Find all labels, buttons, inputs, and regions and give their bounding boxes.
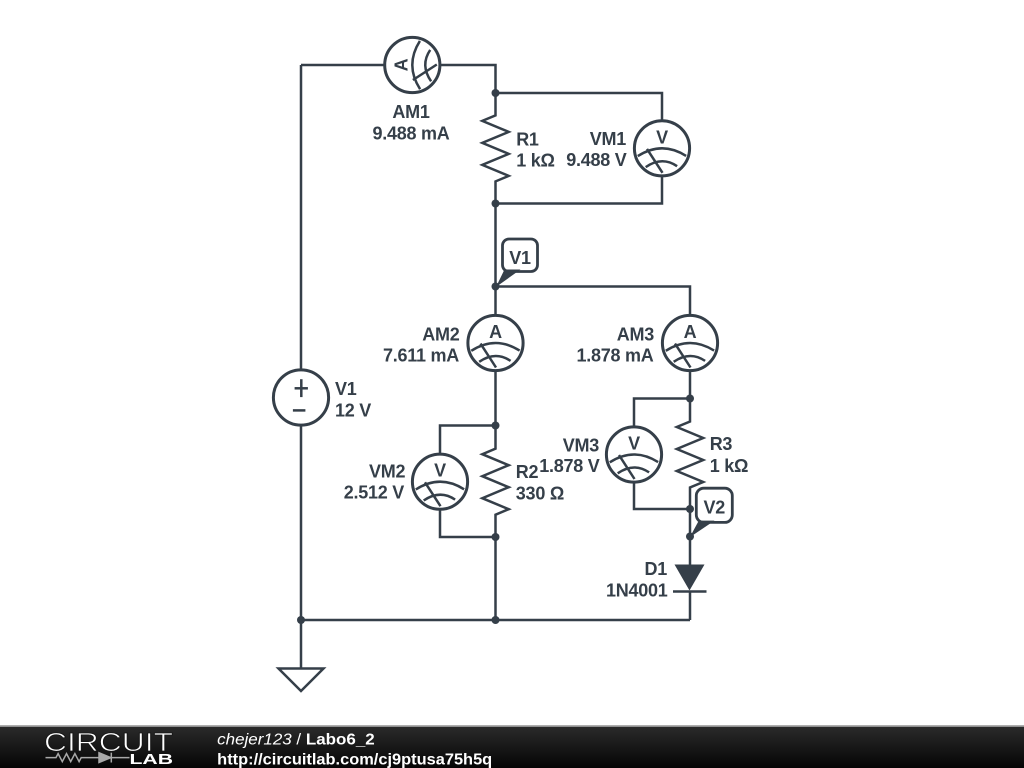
node V1 flag (496, 239, 538, 287)
svg-text:A: A (489, 322, 502, 342)
svg-text:VM1: VM1 (590, 129, 627, 149)
wire junction to VM3 top (634, 399, 690, 428)
svg-text:AM2: AM2 (422, 325, 459, 345)
wire VM1 bottom to junction (496, 176, 663, 204)
resistor R3 (677, 399, 703, 510)
label R3 value (710, 434, 748, 476)
junction node at R2 top (492, 422, 500, 430)
wire junction to VM1 top (496, 93, 663, 121)
voltage source V1 (273, 370, 328, 425)
svg-text:V: V (628, 434, 640, 454)
label VM3 value (539, 435, 600, 476)
svg-text:R3: R3 (710, 434, 733, 454)
svg-text:V2: V2 (704, 497, 726, 517)
wire source bottom to rail (300, 425, 303, 620)
svg-text:VM2: VM2 (369, 462, 406, 482)
junction node at R2 bottom (492, 533, 500, 541)
svg-text:330 Ω: 330 Ω (516, 483, 564, 503)
footer bar (0, 727, 1024, 768)
svg-text:VM3: VM3 (563, 435, 600, 455)
resistor R1 (482, 93, 508, 204)
junction node at R3 top (686, 395, 694, 403)
label R2 value (516, 462, 564, 503)
svg-text:2.512 V: 2.512 V (344, 482, 405, 502)
voltmeter VM2 (412, 454, 467, 509)
junction node rail mid (492, 616, 500, 624)
ground (279, 669, 324, 692)
node V2 flag (690, 488, 733, 537)
svg-text:AM3: AM3 (617, 325, 654, 345)
label VM2 value (344, 462, 406, 503)
ammeter AM3 (662, 315, 717, 370)
wire top from left corner to AM1 (301, 64, 385, 67)
resistor R2 (482, 426, 508, 538)
wire junction to VM2 top (440, 426, 496, 455)
junction node rail left (297, 616, 305, 624)
svg-text:1N4001: 1N4001 (606, 580, 668, 600)
wire AM1 to top-right corner down to junction (440, 65, 496, 93)
wire VM3 bottom to junction (634, 482, 690, 509)
svg-text:1.878 mA: 1.878 mA (576, 346, 653, 366)
wire ground rail (301, 619, 690, 622)
logo wire with resistor and diode (46, 753, 130, 763)
wire R2 bottom to ground rail (494, 537, 497, 620)
label R1 value (516, 130, 554, 171)
wire node V1 to AM3 top (496, 287, 691, 316)
junction node at R3 bottom (686, 505, 694, 513)
node dot V2 (686, 533, 694, 541)
logo CIRCUIT text (44, 727, 173, 757)
node dot V1 (492, 283, 500, 291)
wire R1 bottom to node V1 (494, 204, 497, 287)
svg-text:9.488 mA: 9.488 mA (372, 124, 449, 144)
wire AM2 bottom to junction (494, 371, 497, 426)
svg-text:R2: R2 (516, 462, 539, 482)
label D1 value (606, 559, 668, 600)
wire VM2 bottom to junction (440, 509, 496, 537)
label V1 source value (335, 379, 371, 420)
svg-text:V1: V1 (335, 379, 357, 399)
wire node V2 to diode (689, 537, 692, 566)
svg-text:AM1: AM1 (392, 102, 429, 122)
junction node at R1 top (492, 89, 500, 97)
label AM1 value (372, 102, 449, 144)
wire AM3 bottom to junction (689, 371, 692, 399)
svg-text:http://circuitlab.com/cj9ptusa: http://circuitlab.com/cj9ptusa75h5q (217, 751, 492, 768)
wire node V1 to AM2 top (494, 287, 497, 316)
svg-text:12 V: 12 V (335, 400, 371, 420)
wire diode to ground rail (689, 592, 692, 621)
ammeter AM1 (385, 37, 440, 92)
svg-text:LAB: LAB (130, 751, 174, 768)
svg-text:A: A (391, 58, 411, 71)
ammeter AM2 (468, 315, 523, 370)
logo LAB text (130, 751, 174, 768)
svg-text:V: V (656, 127, 668, 147)
svg-text:D1: D1 (644, 559, 667, 579)
diode D1 (673, 565, 707, 592)
svg-text:V: V (434, 461, 446, 481)
svg-text:A: A (684, 322, 697, 342)
voltmeter VM1 (634, 121, 689, 176)
wire rail to ground symbol (300, 620, 303, 669)
footer divider line (0, 725, 1024, 727)
svg-text:chejer123 / Labo6_2: chejer123 / Labo6_2 (217, 732, 374, 749)
svg-text:V1: V1 (509, 248, 531, 268)
svg-text:1 kΩ: 1 kΩ (516, 150, 554, 170)
svg-text:7.611 mA: 7.611 mA (383, 346, 459, 366)
svg-text:1.878 V: 1.878 V (539, 456, 600, 476)
svg-text:R1: R1 (516, 130, 539, 150)
label VM1 value (566, 129, 627, 170)
junction node at R1 bottom (492, 200, 500, 208)
wire R3 bottom to node V2 (689, 509, 692, 537)
svg-text:1 kΩ: 1 kΩ (710, 456, 748, 476)
footer url text (217, 751, 492, 768)
label AM2 value (383, 325, 460, 366)
voltmeter VM3 (606, 427, 661, 482)
svg-text:9.488 V: 9.488 V (566, 150, 627, 170)
wire left rail top (300, 65, 303, 370)
label AM3 value (576, 325, 654, 366)
footer title text (217, 732, 374, 749)
